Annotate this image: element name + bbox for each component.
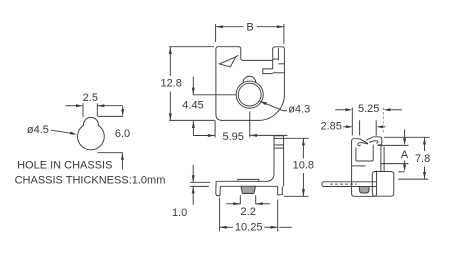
svg-text:A: A — [401, 149, 409, 161]
svg-text:B: B — [246, 22, 253, 34]
svg-text:12.8: 12.8 — [160, 77, 181, 89]
svg-text:10.8: 10.8 — [293, 160, 314, 172]
svg-text:CHASSIS THICKNESS:1.0mm: CHASSIS THICKNESS:1.0mm — [15, 174, 166, 186]
svg-text:4.45: 4.45 — [182, 100, 203, 112]
svg-text:2.85: 2.85 — [320, 121, 341, 133]
svg-text:5.95: 5.95 — [222, 131, 243, 143]
svg-text:1.0: 1.0 — [172, 207, 187, 219]
svg-text:10.25: 10.25 — [235, 221, 263, 233]
svg-text:7.8: 7.8 — [415, 153, 430, 165]
svg-text:ø4.5: ø4.5 — [27, 124, 49, 136]
svg-text:2.2: 2.2 — [241, 206, 256, 218]
svg-text:2.5: 2.5 — [83, 92, 98, 104]
svg-text:ø4.3: ø4.3 — [288, 104, 310, 116]
svg-text:6.0: 6.0 — [115, 128, 130, 140]
svg-text:5.25: 5.25 — [358, 103, 379, 115]
svg-text:HOLE IN CHASSIS: HOLE IN CHASSIS — [17, 160, 112, 172]
